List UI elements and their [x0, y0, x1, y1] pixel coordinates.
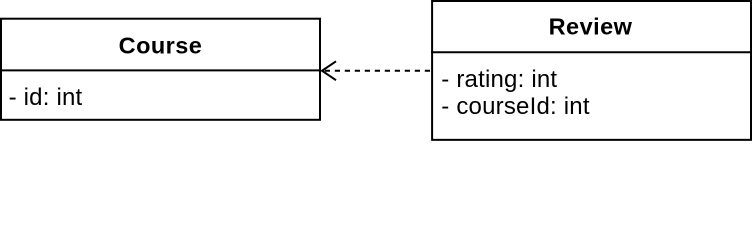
- svg-text:- courseId: int: - courseId: int: [441, 93, 590, 120]
- class Review box: [432, 1, 751, 140]
- svg-text:- rating: int: - rating: int: [441, 66, 557, 93]
- svg-text:- id: int: - id: int: [9, 84, 83, 111]
- open arrowhead pointing at Course: [322, 61, 336, 80]
- class Course box: [1, 19, 320, 120]
- Review title compartment divider: [431, 51, 752, 53]
- svg-text:Review: Review: [549, 13, 633, 39]
- dashed dependency wire from Review to Course: [324, 70, 430, 72]
- Course title compartment divider: [0, 69, 321, 71]
- svg-text:Course: Course: [119, 33, 203, 59]
